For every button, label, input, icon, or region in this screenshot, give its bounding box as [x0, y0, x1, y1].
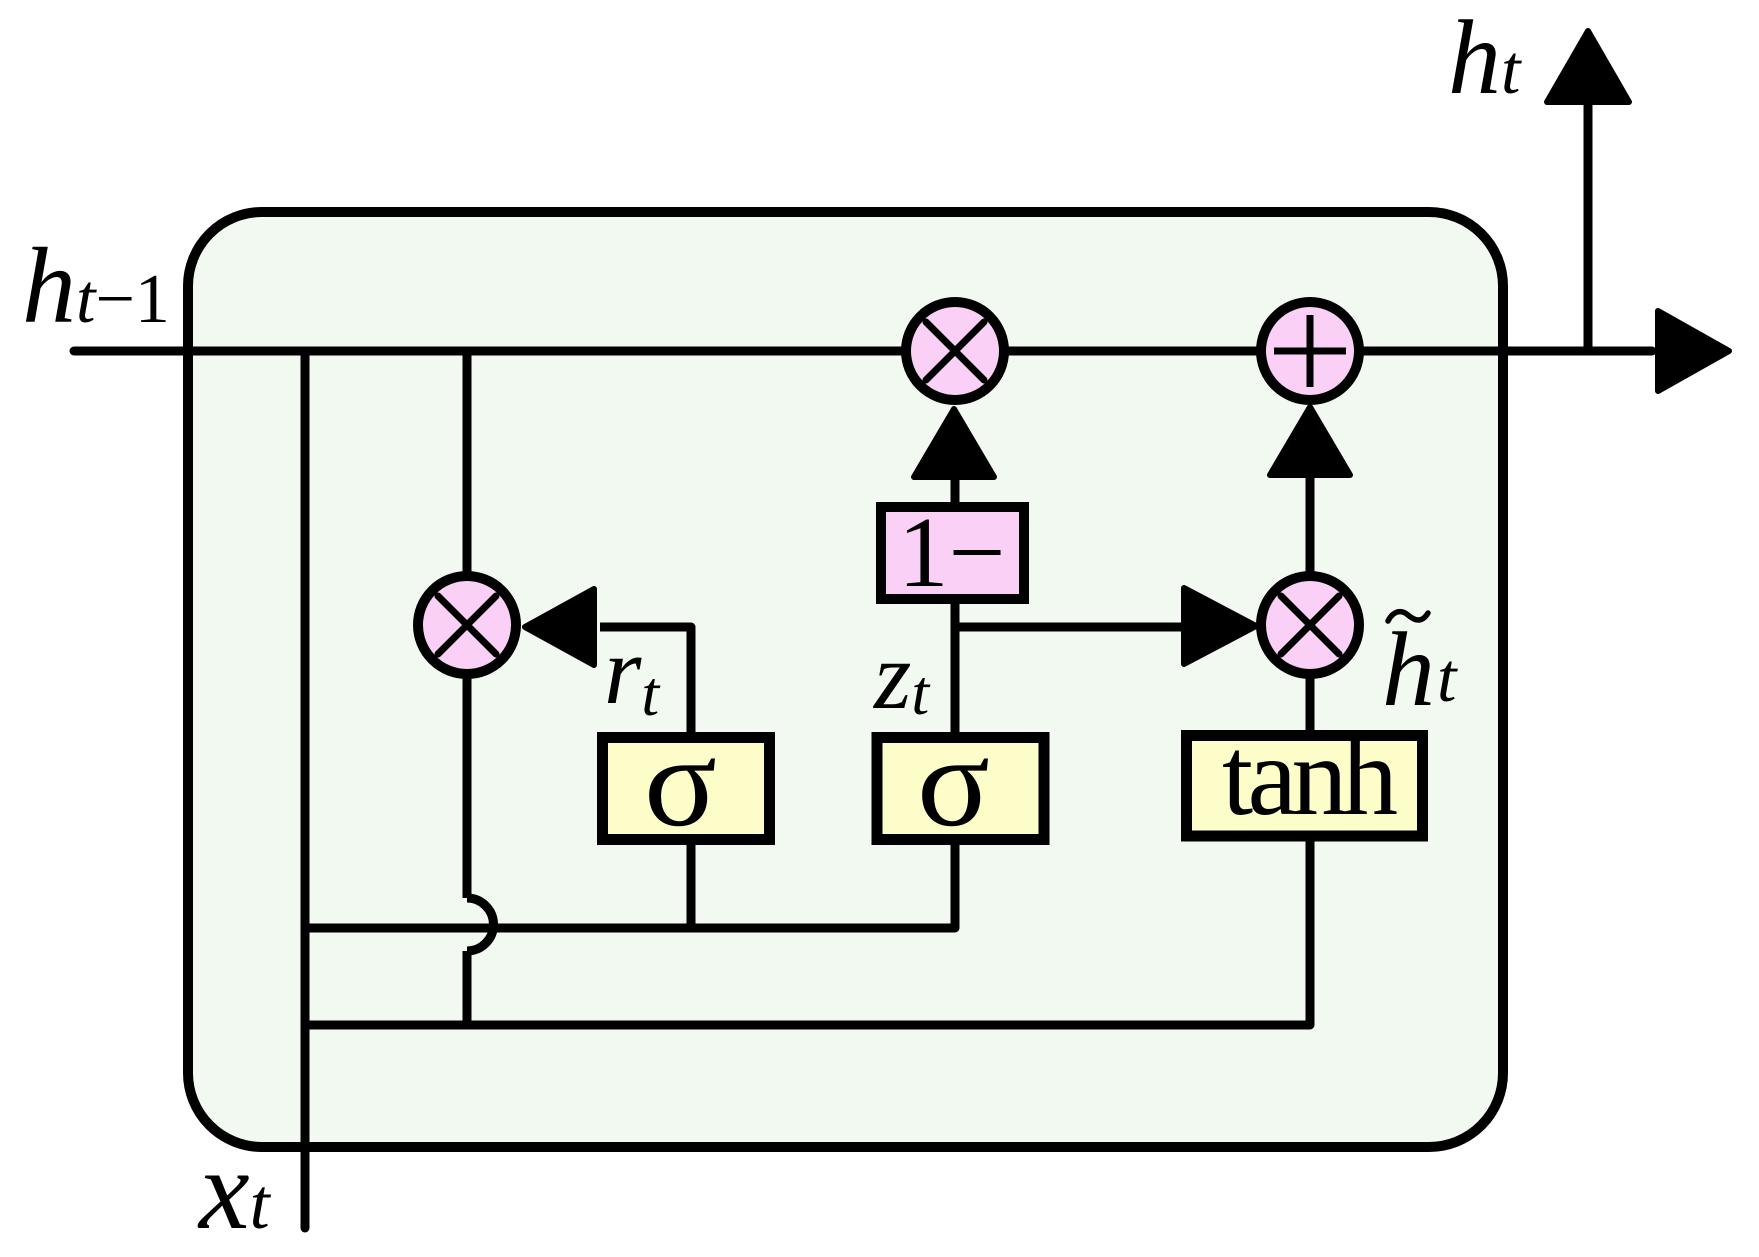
multiply node left (reset gate applied) [418, 576, 516, 674]
svg-text:σ: σ [917, 710, 990, 854]
wire: line A from x_t to sigma gates [305, 839, 955, 928]
GRU cell body (rounded rectangle) [188, 212, 1503, 1147]
arrowhead: h_t up [1547, 31, 1629, 102]
arrowhead: into plus node [1270, 407, 1350, 475]
wire: h_{t-1} main horizontal line [74, 347, 1652, 356]
wire: h_t vertical output [1584, 100, 1593, 351]
arrowhead: r_t into left multiply [525, 589, 594, 665]
svg-text:1−: 1− [898, 496, 1005, 608]
arrowhead: into middle multiply [914, 409, 994, 477]
multiply node middle (z gate on h) [906, 302, 1004, 400]
tanh box [1187, 715, 1423, 839]
wire: x_t vertical input [301, 351, 310, 1228]
wire: candidate multiply output up to plus [1306, 468, 1315, 734]
label h-tilde_t [1382, 611, 1458, 728]
wire: left multiply output (lower segment to line B) [463, 951, 472, 1025]
1-minus box [881, 496, 1024, 608]
arrowhead: z_t into candidate multiply [1184, 588, 1256, 664]
wire: h_{t-1} branch down to left multiply (upper segment) [463, 351, 472, 898]
sigma box r gate [603, 710, 770, 854]
wire: line B from x_t to tanh [305, 839, 1310, 1025]
wire: 1-minus output up to middle multiply [951, 468, 960, 505]
svg-text:σ: σ [644, 710, 717, 854]
wire hop: vertical jumps over line A [467, 898, 494, 951]
sigma box z gate [877, 710, 1044, 854]
wire: z_t from sigma z up to 1-minus box [951, 600, 960, 734]
wire: sigma r input stub [687, 840, 696, 928]
arrowhead: main line output right [1658, 311, 1729, 391]
multiply node right (candidate) [1261, 576, 1359, 674]
wire: r_t from sigma r to left multiply [600, 627, 691, 734]
plus node [1261, 302, 1359, 400]
svg-text:tanh: tanh [1222, 715, 1398, 839]
wire: z_t branch right to candidate multiply [955, 623, 1192, 632]
